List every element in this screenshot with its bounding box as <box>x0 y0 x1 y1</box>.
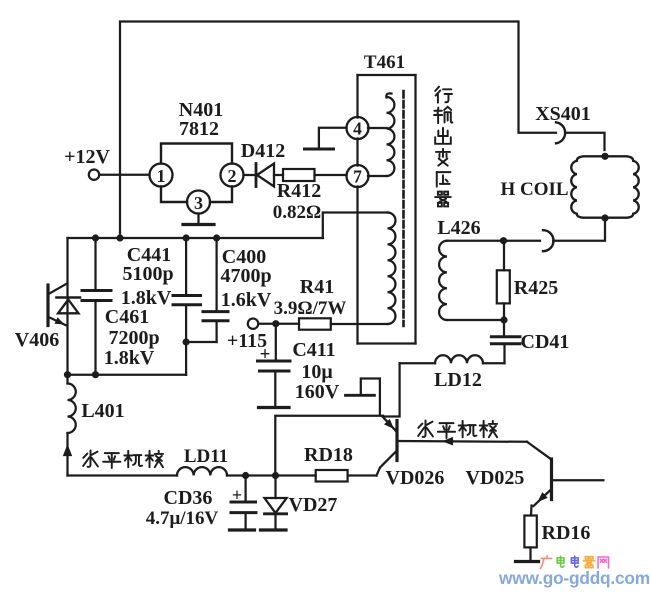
wire pin2 to D412 <box>244 174 258 176</box>
transistor V406 base bar <box>46 285 49 326</box>
svg-text:7812: 7812 <box>179 118 219 140</box>
resistor R41 <box>299 318 331 329</box>
label 3.9ohm/7W <box>274 298 347 319</box>
label VD27 <box>289 494 338 516</box>
wire R425 top <box>503 241 505 271</box>
resistor RD18 <box>316 470 348 482</box>
label L401 <box>81 400 124 422</box>
label C461 <box>105 306 149 328</box>
label RD18 <box>304 444 353 466</box>
wire R412 to pin 7 <box>315 174 347 176</box>
svg-text:1: 1 <box>157 166 166 186</box>
capacitor C441 <box>173 238 201 375</box>
damper diode of V406 <box>57 298 81 314</box>
label C411 <box>292 339 335 361</box>
wire H COIL to lower connector <box>553 218 605 241</box>
label R425 <box>514 277 558 299</box>
transformer T461 frame right <box>414 75 416 344</box>
svg-text:7: 7 <box>353 167 362 187</box>
svg-text:R41: R41 <box>300 276 334 298</box>
svg-text:VD026: VD026 <box>386 467 445 489</box>
pin 7 of T461 <box>347 165 369 187</box>
svg-text:1.8kV: 1.8kV <box>104 347 155 369</box>
transistor VD026 base bar <box>395 421 398 461</box>
label RD16 <box>542 522 591 544</box>
label shuiping zhenjiao right <box>418 420 497 438</box>
capacitor C411 polarity <box>260 344 271 365</box>
svg-text:VD025: VD025 <box>466 467 525 489</box>
resistor RD16 <box>524 516 536 548</box>
svg-text:4: 4 <box>353 119 362 139</box>
drive pulse symbol <box>346 379 380 415</box>
label C441 <box>127 244 171 266</box>
transformer T461 frame left upper <box>356 75 358 118</box>
capacitor CD41 <box>491 320 520 363</box>
ground VD27 <box>261 528 287 531</box>
label R41 <box>300 276 334 298</box>
diode D412 label <box>241 140 285 162</box>
inductor L401 <box>68 384 76 434</box>
svg-text:www.go-gddq.com: www.go-gddq.com <box>498 568 650 588</box>
wire CD41 to LD12 <box>483 362 505 364</box>
label 1.6kV <box>221 289 272 311</box>
label 4700p <box>220 265 271 287</box>
junction dot H COIL bottom <box>601 214 608 221</box>
wire V406 collector-emitter line <box>66 238 68 375</box>
wire L426 bottom <box>447 319 504 321</box>
watermark site name <box>540 556 608 569</box>
svg-text:CD41: CD41 <box>521 331 570 353</box>
label L426 <box>437 217 480 239</box>
svg-text:160V: 160V <box>295 381 340 403</box>
svg-text:+12V: +12V <box>64 146 110 168</box>
wire +115 to R41 <box>258 323 299 325</box>
capacitor C411 wire top <box>275 324 277 361</box>
junction dot bus-riser <box>116 234 123 241</box>
inductor L426 <box>439 241 447 320</box>
wire LD11 to RD18 <box>227 474 316 476</box>
svg-text:XS401: XS401 <box>535 103 591 125</box>
junction dot CD36 <box>242 472 249 479</box>
label LD11 <box>184 446 228 467</box>
junction dot L426 bottom <box>500 316 507 323</box>
wire +12V to pin 1 <box>99 174 149 176</box>
transformer T461 label <box>364 52 405 73</box>
resistor R412 <box>283 169 315 181</box>
wire connector to L426 node <box>504 240 541 242</box>
svg-text:VD27: VD27 <box>289 494 338 516</box>
junction dot bus-C461 <box>92 234 99 241</box>
svg-text:7200p: 7200p <box>108 327 159 349</box>
wire N401 top bracket <box>161 144 232 164</box>
transformer T461 frame top <box>358 74 416 76</box>
svg-text:4700p: 4700p <box>220 265 271 287</box>
wire LD12 left <box>400 362 435 364</box>
svg-text:3: 3 <box>194 193 203 213</box>
wire emitter row <box>275 416 383 476</box>
ground RD16 <box>516 560 539 563</box>
svg-text:3.9Ω/7W: 3.9Ω/7W <box>274 298 347 319</box>
label shuiping zhenjiao left <box>83 450 163 468</box>
inductor LD12 <box>435 355 483 363</box>
label LD12 <box>434 369 482 391</box>
capacitor C411 <box>258 361 291 407</box>
junction dot bus-C441 <box>183 234 190 241</box>
connector to L426 <box>543 230 554 251</box>
label C400 <box>222 246 266 268</box>
wire RD18 to VD026 <box>348 474 377 476</box>
transistor VD025 base wire <box>553 479 604 481</box>
wire secondary top tap <box>323 213 388 239</box>
svg-text:LD12: LD12 <box>434 369 482 391</box>
junction dot emitter-C461 <box>92 371 99 378</box>
ground at pin 4 <box>305 128 347 149</box>
junction dot VD27 <box>272 472 279 479</box>
transistor VD025 collector <box>527 442 552 460</box>
watermark url <box>498 568 650 588</box>
deflection coil H COIL <box>571 156 638 217</box>
transformer T461 primary winding <box>386 93 394 176</box>
wire N401 bottom bracket left <box>161 187 187 203</box>
pin 4 of T461 <box>347 117 369 139</box>
svg-text:RD16: RD16 <box>542 522 591 544</box>
svg-text:L426: L426 <box>437 217 480 239</box>
ground CD36 <box>230 528 255 531</box>
junction dot +115-C411 <box>272 320 279 327</box>
+12V input terminal <box>64 146 110 180</box>
svg-text:C411: C411 <box>292 339 335 361</box>
transformer T461 secondary winding <box>388 213 396 324</box>
transistor VD026 emitter <box>382 416 396 431</box>
regulator N401 pin 1 <box>150 164 173 187</box>
transistor VD025 base bar <box>550 459 553 500</box>
ground N401 pin 3 <box>183 214 214 225</box>
label 1.8kV (C441) <box>121 287 172 309</box>
svg-text:0.82Ω: 0.82Ω <box>273 202 321 223</box>
arrow on base wire <box>442 437 453 446</box>
transformer T461 core <box>402 91 405 326</box>
label 4.7u/16V <box>146 508 219 529</box>
svg-text:10μ: 10μ <box>301 361 333 383</box>
transformer T461 frame left mid <box>356 139 358 166</box>
svg-text:4.7μ/16V: 4.7μ/16V <box>146 508 219 529</box>
label CD36 <box>164 487 213 509</box>
svg-text:T461: T461 <box>364 52 405 73</box>
svg-text:1.6kV: 1.6kV <box>221 289 272 311</box>
diode VD27 <box>265 498 287 530</box>
wire secondary bottom tap <box>331 323 388 325</box>
wire pin 7 tap <box>368 175 387 177</box>
wire top bus from left riser to XS401 drop <box>120 22 556 239</box>
transistor VD026 collector <box>377 451 398 476</box>
wire N401 bottom bracket right <box>210 187 232 203</box>
label 5100p <box>122 263 173 285</box>
label 10u <box>301 361 333 383</box>
wire R425 bottom <box>503 303 505 320</box>
svg-text:R425: R425 <box>514 277 558 299</box>
wire collector bus <box>68 237 324 239</box>
svg-text:RD18: RD18 <box>304 444 353 466</box>
svg-text:R412: R412 <box>277 180 321 202</box>
wire L426 top <box>447 240 504 242</box>
wire RD16 to ground <box>529 547 531 561</box>
wire bottom row left <box>68 474 178 476</box>
wire XS401 to H COIL <box>567 133 605 150</box>
wire node to L401 <box>66 375 68 384</box>
label XS401 <box>535 103 591 125</box>
label 160V <box>295 381 340 403</box>
+115 input terminal <box>227 319 267 353</box>
junction dot C441-C400 bottom <box>183 338 190 345</box>
arrow up on wire <box>63 444 72 456</box>
wire LD12 drop <box>383 363 400 416</box>
svg-text:V406: V406 <box>15 329 59 351</box>
transistor VD026 base wire <box>399 440 528 443</box>
capacitor C461 <box>82 238 111 375</box>
regulator N401 pin 3 <box>187 191 210 214</box>
transistor VD025 emitter <box>534 489 552 506</box>
wire VD025 emitter to RD16 <box>530 506 533 516</box>
ground C411 <box>259 406 290 409</box>
wire pin 4 tap <box>368 127 387 129</box>
connector XS401 <box>556 122 565 143</box>
junction dot L426 top <box>500 237 507 244</box>
label 1.8kV (C461) <box>104 347 155 369</box>
junction dot bus-C400 <box>213 234 220 241</box>
svg-text:CD36: CD36 <box>164 487 213 509</box>
resistor R412 label <box>273 180 321 223</box>
svg-text:C461: C461 <box>105 306 149 328</box>
label 7200p <box>108 327 159 349</box>
diode D412 <box>256 164 274 187</box>
transistor V406 label <box>15 329 59 351</box>
wire L401 down <box>66 433 68 476</box>
capacitor CD36 wire <box>244 476 246 503</box>
junction dot emitter-left <box>64 371 71 378</box>
transistor V406 emitter <box>50 317 67 325</box>
regulator N401 7812 label <box>179 99 223 140</box>
svg-text:5100p: 5100p <box>122 263 173 285</box>
svg-text:LD11: LD11 <box>184 446 228 467</box>
label VD026 <box>386 467 445 489</box>
resistor R425 <box>497 270 510 303</box>
label VD025 <box>466 467 525 489</box>
capacitor CD36 polarity <box>232 485 242 505</box>
regulator N401 pin 2 <box>221 164 244 187</box>
wire D412 to R412 <box>274 174 283 176</box>
junction dot H COIL top <box>601 153 608 160</box>
label H COIL <box>500 179 568 200</box>
capacitor CD36 <box>231 502 256 530</box>
diode VD27 wire <box>274 476 276 499</box>
transformer T461 frame left lower <box>356 187 358 344</box>
wire emitter node line <box>68 374 187 376</box>
svg-text:D412: D412 <box>241 140 285 162</box>
transformer T461 frame bottom <box>358 342 416 344</box>
capacitor C400 <box>186 238 228 342</box>
svg-text:2: 2 <box>228 166 237 186</box>
transistor V406 collector <box>50 284 68 294</box>
label CD41 <box>521 331 570 353</box>
svg-text:L401: L401 <box>81 400 124 422</box>
label hengshuchu transformer caption <box>434 87 452 207</box>
svg-text:H COIL: H COIL <box>500 179 568 200</box>
inductor LD11 <box>177 467 227 475</box>
